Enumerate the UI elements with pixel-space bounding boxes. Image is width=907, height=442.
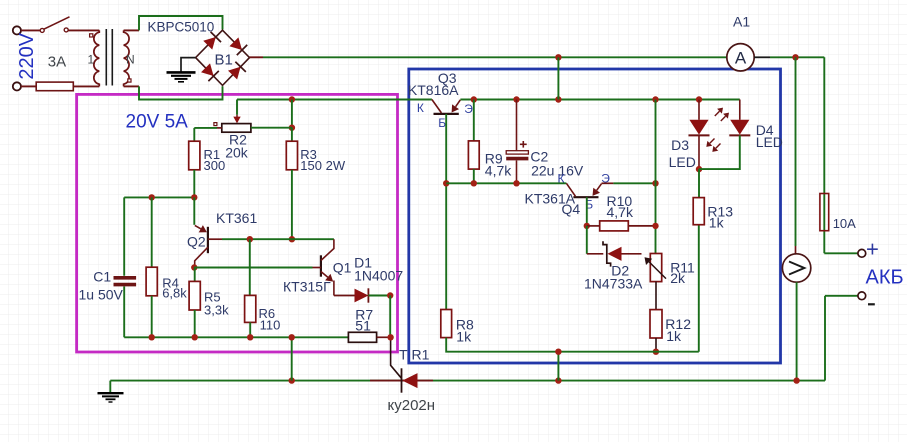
svg-text:Q4: Q4	[562, 201, 581, 217]
wire Q1 base stub	[313, 267, 321, 269]
node bottom rail / magenta block ground	[289, 377, 295, 383]
wire rail to R2 right	[291, 100, 293, 128]
wire top rail down to 10A fuse	[823, 57, 825, 253]
node R3 to base rail	[289, 236, 295, 242]
thyristor TR1 gate wire	[391, 337, 402, 378]
svg-text:150 2W: 150 2W	[300, 158, 346, 173]
wire thyristor segment	[370, 380, 433, 382]
wire top rail to ammeter	[263, 56, 727, 58]
zener D2 triangle	[608, 247, 622, 261]
svg-text:Б: Б	[438, 116, 446, 130]
capacitor C1 1u 50V	[114, 276, 137, 280]
svg-text:KT361: KT361	[216, 210, 257, 226]
node R2 right junction	[289, 125, 295, 131]
transistor Q2 KT361 base bar	[207, 227, 209, 253]
wire secondary top to bridge AC1	[139, 16, 223, 30]
svg-text:К: К	[558, 171, 565, 185]
wire main bottom rail	[110, 380, 825, 382]
wire magenta ground link	[291, 337, 293, 380]
node rail C2	[513, 96, 519, 102]
terminal minus	[858, 292, 866, 300]
node D3 D4 junction	[696, 166, 702, 172]
svg-text:1u 50V: 1u 50V	[79, 286, 124, 302]
switch SA1 contact left	[40, 28, 44, 32]
svg-text:KBPC5010: KBPC5010	[148, 20, 215, 35]
wire fuse to plus terminal	[824, 252, 858, 254]
svg-text:3A: 3A	[48, 54, 66, 71]
wire D2 anode to wiper	[622, 253, 642, 255]
svg-text:D3: D3	[671, 137, 689, 153]
svg-text:1: 1	[88, 53, 95, 67]
wire D3 junction to R13	[698, 169, 700, 198]
svg-text:4,7k: 4,7k	[607, 204, 634, 220]
node rect rail / R2 right branch	[289, 96, 295, 102]
transformer T1 polarity mark primary	[90, 34, 93, 37]
wire D3 anode lead	[698, 100, 700, 120]
svg-text:10A: 10A	[833, 216, 856, 231]
diode D1 1N4007	[355, 289, 369, 303]
resistor R6 110	[245, 295, 256, 322]
wire riser top rail to blue rail	[557, 57, 559, 99]
svg-text:+: +	[866, 237, 879, 262]
wire rect rail left segment	[139, 99, 223, 101]
wire rect rail right segment	[237, 99, 432, 101]
node R1 bottom / Q2 emitter	[191, 194, 197, 200]
ground symbol at bridge	[167, 71, 196, 74]
node R7 gate junction	[387, 334, 393, 340]
comparator block boundary (blue box)	[409, 69, 781, 363]
ground symbol bottom left	[109, 381, 111, 393]
transformer T1 polarity mark secondary	[128, 79, 131, 82]
pot R11 wiper arrow	[649, 262, 666, 279]
wire bridge minus to ground	[181, 58, 196, 72]
svg-text:300: 300	[204, 158, 226, 173]
transformer T1 core	[105, 29, 107, 86]
node top rail / voltmeter branch	[792, 54, 798, 60]
wire R2 left lead	[217, 127, 222, 129]
wire secondary top	[124, 29, 139, 31]
transformer T1 secondary winding	[124, 30, 129, 86]
wire D3 cathode lead	[698, 135, 700, 169]
wire collector rail y267	[194, 267, 312, 269]
node rail C2 bottom	[513, 180, 519, 186]
thyristor TR1 triangle	[402, 373, 417, 388]
wire R4 top lead	[151, 197, 153, 267]
wire inner ground rail	[124, 336, 348, 338]
wire R2 wiper riser	[236, 100, 238, 115]
terminal 220V bottom	[13, 82, 21, 90]
svg-text:KT816A: KT816A	[408, 82, 459, 98]
resistor R4 6,8k	[146, 267, 157, 296]
wire R5 bottom lead	[194, 310, 196, 337]
wire blue ground link	[557, 352, 559, 381]
node bottom rail / blue block ground	[555, 377, 561, 383]
svg-text:LED: LED	[669, 154, 696, 170]
svg-text:51: 51	[355, 318, 371, 334]
resistor R13 1k	[693, 198, 704, 225]
svg-text:Q1: Q1	[333, 259, 352, 275]
wire R12 bottom lead	[655, 338, 657, 352]
led D3	[689, 120, 708, 135]
terminal plus	[858, 249, 866, 257]
svg-text:К: К	[417, 101, 424, 115]
svg-text:1N4733A: 1N4733A	[584, 276, 643, 292]
wire minus down to bottom rail	[824, 296, 826, 381]
svg-text:R1: R1	[412, 347, 430, 363]
fuse FU2 10A	[820, 194, 829, 231]
wire R6 top lead	[249, 239, 251, 295]
svg-text:АКБ: АКБ	[866, 267, 904, 289]
wire R4 bottom lead	[151, 296, 153, 338]
wire R2 right lead	[251, 127, 292, 129]
node Q2 collector junction	[191, 264, 197, 270]
svg-text:B1: B1	[215, 52, 233, 69]
wire switch to transformer	[68, 29, 99, 31]
switch SA1 blade	[44, 17, 70, 29]
resistor R9 4,7k	[468, 141, 479, 169]
wire R3 bottom lead	[291, 170, 293, 239]
fuse FU1 3A	[36, 82, 73, 91]
wire R9 bottom lead	[473, 169, 475, 183]
transistor Q2 emitter lead	[193, 197, 195, 224]
wire R10 right lead	[628, 225, 655, 227]
node riser rail2	[652, 180, 658, 186]
wire R7 right lead	[377, 336, 391, 338]
terminal 220V top	[13, 26, 21, 34]
transistor Q1 emitter lead	[321, 272, 328, 278]
svg-text:220V: 220V	[16, 32, 38, 79]
bridge B1 diamond	[196, 30, 250, 85]
resistor R7 51	[348, 332, 376, 342]
svg-text:A: A	[735, 48, 747, 67]
wire C2 bottom lead	[516, 161, 518, 184]
node rail R9 bottom	[471, 180, 477, 186]
node R4 bottom	[149, 334, 155, 340]
node bottom rail / voltmeter	[793, 377, 799, 383]
wire C2 top lead	[516, 100, 518, 151]
wire R3 top lead	[291, 128, 293, 142]
ammeter A1	[727, 44, 754, 71]
node R6 bottom	[247, 334, 253, 340]
wire ammeter to corner	[770, 56, 824, 58]
node rail riser	[555, 96, 561, 102]
wire R10 left lead	[587, 225, 600, 227]
transistor Q4 collector lead	[566, 183, 575, 196]
pot R2 20k body	[222, 124, 251, 133]
led D3 emission arrows	[710, 139, 715, 144]
wire C1 top lead	[123, 197, 125, 275]
wire bridge plus stub	[250, 56, 264, 58]
transistor Q1 collector lead	[321, 239, 334, 260]
resistor R10 4,7k	[600, 221, 629, 231]
wire D4 anode lead	[739, 100, 741, 120]
pot R2 wiper arrow	[236, 115, 238, 118]
node Q4 base R10	[584, 223, 590, 229]
wire C1 bottom lead	[123, 287, 125, 338]
wire R5 top lead	[194, 268, 196, 282]
pot R2 pin mark	[214, 123, 217, 126]
wire secondary bottom to bridge AC2	[139, 86, 223, 99]
svg-text:20V 5A: 20V 5A	[126, 112, 189, 133]
wire Q3 base riser	[445, 114, 447, 310]
wire Q4 emitter to riser	[613, 182, 655, 184]
node blue ground link	[555, 349, 561, 355]
node R12 bottom	[653, 349, 659, 355]
wire fuse to transformer	[73, 85, 99, 87]
transistor Q3 emitter lead	[456, 100, 461, 107]
node magenta ground link	[289, 334, 295, 340]
capacitor C2 22u 16V	[506, 151, 528, 154]
wire Q4 base to D2	[586, 226, 588, 254]
node D1 cathode junction	[387, 292, 393, 298]
wire Q1 emitter to D1	[334, 295, 355, 297]
wire base rail y239	[222, 238, 334, 240]
wire ammeter right stub	[754, 56, 770, 58]
bridge diode upper-right	[229, 37, 247, 55]
control block boundary (magenta box)	[77, 94, 398, 352]
bridge diode lower-right	[227, 62, 245, 80]
transistor Q3 base bar	[434, 113, 459, 115]
transistor Q4 emitter lead	[597, 184, 602, 191]
svg-text:C1: C1	[93, 269, 111, 285]
wire terminal to switch	[21, 29, 40, 31]
transistor Q3 collector lead	[432, 100, 442, 113]
svg-text:1N4007: 1N4007	[354, 268, 403, 284]
wire plus riser x655	[655, 100, 657, 254]
svg-text:1k: 1k	[709, 214, 725, 230]
wire R13 bottom riser	[698, 225, 700, 352]
svg-text:КТ315Г: КТ315Г	[283, 278, 331, 294]
svg-text:3,3k: 3,3k	[204, 303, 229, 318]
svg-text:LED: LED	[756, 134, 783, 150]
svg-text:4,7k: 4,7k	[485, 162, 512, 178]
node R10 riser	[652, 223, 658, 229]
resistor R8 1k	[441, 310, 452, 338]
wire R8 bottom lead	[446, 338, 558, 352]
wire Q4 base lead	[586, 197, 588, 226]
wire base rail left	[446, 182, 566, 184]
led D4 emission arrows	[715, 111, 720, 116]
resistor R5 3,3k	[189, 281, 200, 310]
node rail D-branch	[652, 96, 658, 102]
wire gate node down	[389, 296, 391, 338]
transistor Q4 KT361A base bar	[573, 196, 598, 198]
svg-text:A1: A1	[733, 14, 750, 30]
wire R1 bottom lead	[193, 170, 195, 198]
bridge diode lower-left	[200, 63, 218, 81]
wire secondary bottom	[124, 85, 139, 87]
svg-text:N: N	[126, 53, 135, 67]
node R5 bottom	[192, 334, 198, 340]
thyristor TR1 cathode bar	[401, 368, 403, 392]
node top rail riser	[555, 54, 561, 60]
switch SA1 contact right	[64, 28, 68, 32]
bridge diode upper-left	[203, 32, 221, 50]
svg-text:6,8k: 6,8k	[162, 286, 187, 301]
svg-text:110: 110	[260, 318, 281, 333]
wire inner bottom rail blue	[558, 351, 698, 353]
wire voltmeter feed	[795, 57, 797, 246]
wire minus terminal to corner	[825, 295, 858, 297]
svg-text:ку202н: ку202н	[388, 397, 436, 414]
resistor R12 1k	[650, 310, 662, 338]
transistor Q2 collector lead	[195, 247, 208, 267]
wire D4 cathode to D3	[699, 135, 740, 169]
voltmeter PV1	[782, 254, 810, 282]
transistor Q1 KT315 base bar	[320, 255, 322, 276]
resistor R1 300	[189, 141, 200, 170]
transformer T1 primary winding	[94, 30, 99, 86]
label minus sign	[868, 303, 875, 305]
wire voltmeter to bottom rail	[796, 282, 798, 380]
wire Q3 emitter rail	[460, 99, 739, 101]
svg-text:Q2: Q2	[187, 234, 206, 250]
svg-text:1k: 1k	[456, 329, 472, 345]
wire emitter rail y197	[124, 196, 194, 198]
resistor R3 150 2W	[286, 141, 297, 170]
wire R6 bottom lead	[249, 322, 251, 337]
node Q3 emitter / R9	[471, 96, 477, 102]
capacitor C2 plus mark	[520, 143, 527, 145]
node base riser rail	[443, 180, 449, 186]
pot R11 2k body	[650, 254, 661, 282]
node rail D3	[696, 96, 702, 102]
wire terminal to fuse	[21, 85, 36, 87]
svg-text:1k: 1k	[666, 328, 682, 344]
svg-text:T: T	[399, 347, 408, 363]
wire R11 bottom lead	[655, 282, 657, 310]
wire R9 top lead	[473, 100, 475, 141]
wire Q2 base lead	[208, 238, 222, 240]
wire D1 to gate node	[368, 295, 390, 297]
svg-text:Э: Э	[464, 102, 473, 116]
svg-text:20k: 20k	[225, 144, 249, 160]
svg-text:2k: 2k	[670, 270, 686, 286]
zener D2 1N4733A bar	[603, 241, 611, 266]
led D4	[730, 120, 749, 135]
node base rail R6	[247, 236, 253, 242]
svg-text:Э: Э	[601, 171, 610, 185]
node C1 R4 rail	[149, 194, 155, 200]
